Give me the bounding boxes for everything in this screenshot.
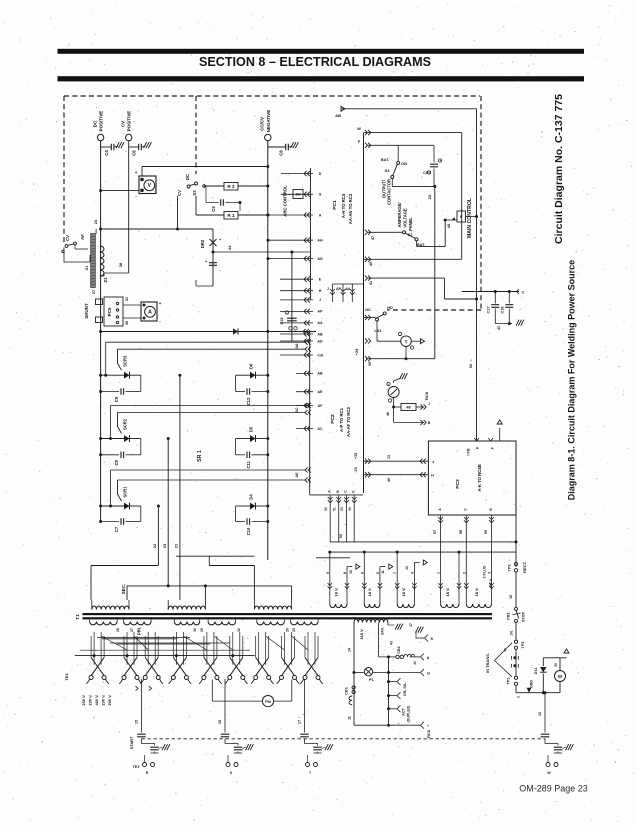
svg-text:M: M <box>558 674 562 679</box>
svg-text:A-K TO RC4B: A-K TO RC4B <box>477 464 482 491</box>
svg-text:PANEL: PANEL <box>408 217 413 231</box>
svg-text:A: A <box>319 213 322 217</box>
svg-text:BAT.: BAT. <box>381 158 389 162</box>
svg-text:POSITIVE: POSITIVE <box>99 111 104 132</box>
svg-text:25: 25 <box>292 628 296 632</box>
svg-text:RECT.: RECT. <box>522 561 527 573</box>
svg-text:8: 8 <box>343 572 347 574</box>
svg-text:J: J <box>327 287 329 291</box>
svg-text:T1: T1 <box>75 614 80 620</box>
svg-text:C7: C7 <box>114 526 119 532</box>
svg-text:23: 23 <box>162 543 167 548</box>
svg-text:18 V.: 18 V. <box>401 587 406 596</box>
svg-text:1: 1 <box>437 572 441 574</box>
svg-text:PC5: PC5 <box>107 307 112 316</box>
svg-text:17: 17 <box>298 720 302 724</box>
svg-text:AC: AC <box>317 427 323 431</box>
svg-text:SEC.: SEC. <box>121 584 126 594</box>
svg-text:CB1: CB1 <box>343 686 348 695</box>
svg-text:22: 22 <box>152 543 157 548</box>
svg-text:CB2: CB2 <box>397 646 401 653</box>
svg-text:11: 11 <box>381 570 385 574</box>
svg-text:+24: +24 <box>354 348 359 356</box>
svg-text:PL: PL <box>369 677 375 682</box>
svg-text:HD: HD <box>387 306 393 310</box>
svg-text:GR, SIL.: GR, SIL. <box>403 682 407 696</box>
svg-text:AA: AA <box>295 343 299 349</box>
svg-text:S1: S1 <box>85 266 89 271</box>
svg-text:T: T <box>405 339 408 344</box>
svg-text:Z1: Z1 <box>103 277 108 283</box>
svg-text:A-P TO RC1: A-P TO RC1 <box>339 407 344 432</box>
svg-text:B: B <box>489 508 493 511</box>
svg-text:C5: C5 <box>211 206 216 212</box>
svg-text:PB1: PB1 <box>507 612 511 619</box>
svg-text:+15: +15 <box>354 453 358 459</box>
svg-text:VOLTAGE: VOLTAGE <box>403 208 408 228</box>
svg-text:C8: C8 <box>114 459 119 465</box>
svg-text:39: 39 <box>368 362 372 366</box>
svg-text:AA-AF TO RC2: AA-AF TO RC2 <box>346 406 351 437</box>
svg-text:NC: NC <box>365 308 371 312</box>
svg-text:RC4: RC4 <box>488 578 493 587</box>
svg-text:K: K <box>431 637 434 641</box>
svg-text:IN TRANS.: IN TRANS. <box>485 653 490 673</box>
svg-text:60: 60 <box>339 534 343 538</box>
svg-text:SCR2: SCR2 <box>123 418 128 430</box>
svg-text:TP1: TP1 <box>507 678 511 685</box>
svg-text:22: 22 <box>427 194 432 199</box>
svg-text:SR 1: SR 1 <box>197 450 203 462</box>
svg-text:TP2: TP2 <box>521 642 525 649</box>
svg-text:4X: 4X <box>503 648 507 652</box>
svg-text:+: + <box>159 301 162 306</box>
svg-text:Diagram 8-1. Circuit Diagram F: Diagram 8-1. Circuit Diagram For Welding… <box>567 260 577 500</box>
svg-text:R 2: R 2 <box>227 184 235 189</box>
svg-text:J: J <box>319 298 321 302</box>
svg-text:24: 24 <box>93 219 98 224</box>
svg-text:SHUNT: SHUNT <box>84 303 89 319</box>
svg-text:K: K <box>476 446 480 449</box>
svg-text:AA: AA <box>317 321 323 325</box>
svg-text:28: 28 <box>116 628 120 632</box>
svg-text:4: 4 <box>410 572 414 574</box>
svg-text:230 V.: 230 V. <box>88 695 93 706</box>
svg-text:DC: DC <box>185 174 190 180</box>
svg-text:AB: AB <box>317 372 323 376</box>
svg-text:AD: AD <box>317 339 323 343</box>
svg-text:30: 30 <box>125 321 129 325</box>
svg-text:I: I <box>427 724 428 728</box>
svg-text:47: 47 <box>371 236 375 240</box>
svg-text:26: 26 <box>118 262 123 267</box>
svg-text:3: 3 <box>488 572 492 574</box>
svg-text:45: 45 <box>369 262 373 266</box>
svg-text:32: 32 <box>237 628 241 632</box>
svg-text:SCR3: SCR3 <box>123 355 128 367</box>
svg-text:C17: C17 <box>487 307 491 314</box>
svg-text:115 V.: 115 V. <box>359 628 364 639</box>
svg-text:1W: 1W <box>295 193 301 197</box>
svg-text:GND: GND <box>530 680 534 688</box>
svg-text:Circuit Diagram No. C-137 775: Circuit Diagram No. C-137 775 <box>553 94 565 244</box>
svg-text:FM: FM <box>265 699 271 704</box>
svg-text:ARC CONTROL: ARC CONTROL <box>283 185 288 217</box>
svg-text:200 V.: 200 V. <box>107 695 112 706</box>
svg-text:CV: CV <box>177 190 182 196</box>
svg-text:2: 2 <box>462 572 466 574</box>
svg-text:27: 27 <box>130 628 134 632</box>
svg-text:AF: AF <box>80 234 85 240</box>
svg-text:101: 101 <box>510 630 514 635</box>
svg-text:OM-289 Page 23: OM-289 Page 23 <box>519 784 588 794</box>
svg-text:SECTION 8 – ELECTRICAL DIAGRAM: SECTION 8 – ELECTRICAL DIAGRAMS <box>199 55 431 69</box>
svg-text:A: A <box>438 508 442 511</box>
svg-text:CC/CV: CC/CV <box>260 117 265 131</box>
svg-text:18 V.: 18 V. <box>333 587 338 596</box>
svg-text:PRI.: PRI. <box>136 627 141 635</box>
svg-text:S4: S4 <box>385 168 391 173</box>
svg-text:R 1: R 1 <box>227 213 235 218</box>
svg-text:6: 6 <box>360 572 364 574</box>
svg-text:W: W <box>357 127 361 131</box>
svg-text:24V.: 24V. <box>380 627 385 635</box>
svg-text:(DUPLEX): (DUPLEX) <box>407 705 411 723</box>
svg-text:POSITIVE: POSITIVE <box>127 111 132 132</box>
svg-text:ON: ON <box>401 161 407 166</box>
svg-text:A: A <box>427 656 430 660</box>
svg-text:62: 62 <box>469 364 473 368</box>
svg-text:+18: +18 <box>317 353 323 357</box>
svg-text:B: B <box>428 421 431 425</box>
svg-text:AF: AF <box>318 404 324 408</box>
svg-text:C11: C11 <box>246 460 251 468</box>
svg-text:START: START <box>129 736 134 749</box>
svg-text:CV: CV <box>65 235 70 241</box>
svg-text:26: 26 <box>286 628 290 632</box>
svg-text:18: 18 <box>509 595 513 599</box>
svg-text:C4: C4 <box>104 150 109 156</box>
svg-text:J: J <box>432 460 434 464</box>
svg-text:43: 43 <box>390 641 394 645</box>
svg-text:CONTACTOR: CONTACTOR <box>387 179 392 205</box>
svg-text:230 V.: 230 V. <box>101 695 106 706</box>
svg-text:30: 30 <box>554 663 558 667</box>
svg-text:59: 59 <box>484 530 488 534</box>
svg-text:18 V.: 18 V. <box>445 587 450 596</box>
svg-text:5: 5 <box>376 572 380 574</box>
svg-text:AB: AB <box>335 113 341 118</box>
svg-text:31: 31 <box>125 297 129 301</box>
svg-text:14: 14 <box>348 648 352 652</box>
svg-text:-15: -15 <box>354 467 358 472</box>
svg-text:S3: S3 <box>192 190 197 196</box>
svg-text:D6: D6 <box>249 363 254 369</box>
svg-text:AC: AC <box>295 407 299 413</box>
svg-text:11: 11 <box>348 716 352 720</box>
svg-text:D: D <box>319 172 322 176</box>
svg-text:C8: C8 <box>279 150 284 156</box>
svg-text:RC6: RC6 <box>426 729 431 738</box>
svg-text:21: 21 <box>174 543 179 548</box>
svg-text:C10: C10 <box>246 527 251 535</box>
svg-text:ACT: ACT <box>402 708 406 716</box>
svg-text:DR2: DR2 <box>200 239 205 248</box>
svg-text:C: C <box>464 508 468 511</box>
svg-text:S2: S2 <box>408 232 414 237</box>
svg-text:10: 10 <box>349 570 353 574</box>
svg-text:AA: AA <box>345 287 351 291</box>
svg-text:J: J <box>428 402 430 406</box>
svg-text:49: 49 <box>387 478 391 482</box>
svg-text:PC1: PC1 <box>332 200 338 210</box>
svg-text:18 V.: 18 V. <box>474 587 479 596</box>
svg-text:AP: AP <box>336 287 342 291</box>
svg-text:MAIN CONTROL: MAIN CONTROL <box>467 198 473 238</box>
svg-text:STOP: STOP <box>522 611 526 622</box>
svg-text:AE: AE <box>318 390 324 394</box>
svg-text:50: 50 <box>348 507 352 511</box>
svg-text:D11: D11 <box>534 668 538 675</box>
svg-text:52: 52 <box>324 507 328 511</box>
svg-text:53: 53 <box>340 507 344 511</box>
svg-text:46: 46 <box>386 412 390 416</box>
svg-text:TE1: TE1 <box>64 673 69 681</box>
svg-text:47: 47 <box>409 623 413 627</box>
svg-text:C18: C18 <box>501 307 505 314</box>
svg-text:7: 7 <box>393 572 397 574</box>
svg-text:C6: C6 <box>132 150 137 156</box>
svg-text:AG: AG <box>317 257 323 261</box>
svg-text:200 V.: 200 V. <box>81 695 86 706</box>
svg-text:RC8: RC8 <box>424 391 429 400</box>
svg-text:2: 2 <box>517 696 521 698</box>
svg-text:12: 12 <box>538 712 542 716</box>
svg-text:48: 48 <box>406 406 410 410</box>
svg-text:43: 43 <box>497 326 501 330</box>
svg-text:41: 41 <box>369 281 373 285</box>
svg-text:A-H TO RC4: A-H TO RC4 <box>341 193 346 218</box>
svg-text:+: + <box>135 170 138 175</box>
svg-text:+: + <box>399 333 401 337</box>
svg-text:AMPERAGE/: AMPERAGE/ <box>397 202 402 228</box>
svg-text:57: 57 <box>433 530 437 534</box>
svg-text:40: 40 <box>413 661 417 665</box>
svg-text:51: 51 <box>332 507 336 511</box>
svg-text:LS1: LS1 <box>374 328 382 333</box>
svg-text:A: A <box>148 310 152 316</box>
svg-text:H: H <box>319 289 322 293</box>
svg-text:I FB: I FB <box>467 448 471 455</box>
svg-text:16: 16 <box>218 720 222 724</box>
svg-text:30: 30 <box>193 628 197 632</box>
svg-text:D4: D4 <box>249 494 254 500</box>
svg-text:AA-AN TO RC3: AA-AN TO RC3 <box>348 193 353 224</box>
svg-text:NEGATIVE: NEGATIVE <box>266 110 271 133</box>
svg-text:C12: C12 <box>246 397 251 405</box>
svg-text:C9: C9 <box>114 396 119 402</box>
svg-text:G: G <box>427 672 430 676</box>
svg-text:18 V.: 18 V. <box>367 587 372 596</box>
svg-text:AP: AP <box>318 310 324 314</box>
svg-text:13: 13 <box>387 455 391 459</box>
svg-text:9: 9 <box>326 572 330 574</box>
svg-text:460 V.: 460 V. <box>94 695 99 706</box>
svg-text:AB: AB <box>317 332 323 336</box>
svg-text:12: 12 <box>405 566 409 570</box>
svg-text:+: + <box>388 383 390 387</box>
svg-text:+: + <box>286 312 288 316</box>
svg-text:3 PLUG: 3 PLUG <box>483 565 487 578</box>
svg-text:41: 41 <box>227 245 232 250</box>
svg-text:+: + <box>439 159 441 163</box>
svg-text:PC2: PC2 <box>330 414 336 424</box>
svg-text:58: 58 <box>459 530 463 534</box>
svg-text:PC3: PC3 <box>455 479 461 489</box>
svg-text:TP3: TP3 <box>508 565 512 572</box>
svg-text:27: 27 <box>92 290 96 294</box>
svg-text:G: G <box>319 193 322 197</box>
svg-text:TE1: TE1 <box>133 765 140 769</box>
svg-text:CV: CV <box>121 121 126 127</box>
svg-text:15: 15 <box>135 720 139 724</box>
svg-text:29: 29 <box>200 628 204 632</box>
svg-text:SCR1: SCR1 <box>123 486 128 498</box>
svg-text:AE: AE <box>295 472 299 478</box>
svg-text:C: C <box>522 291 525 295</box>
svg-text:D5: D5 <box>249 426 254 432</box>
svg-text:DC: DC <box>92 120 97 127</box>
svg-text:AH: AH <box>317 239 323 243</box>
svg-text:C15: C15 <box>280 318 284 325</box>
svg-text:H: H <box>431 474 434 478</box>
